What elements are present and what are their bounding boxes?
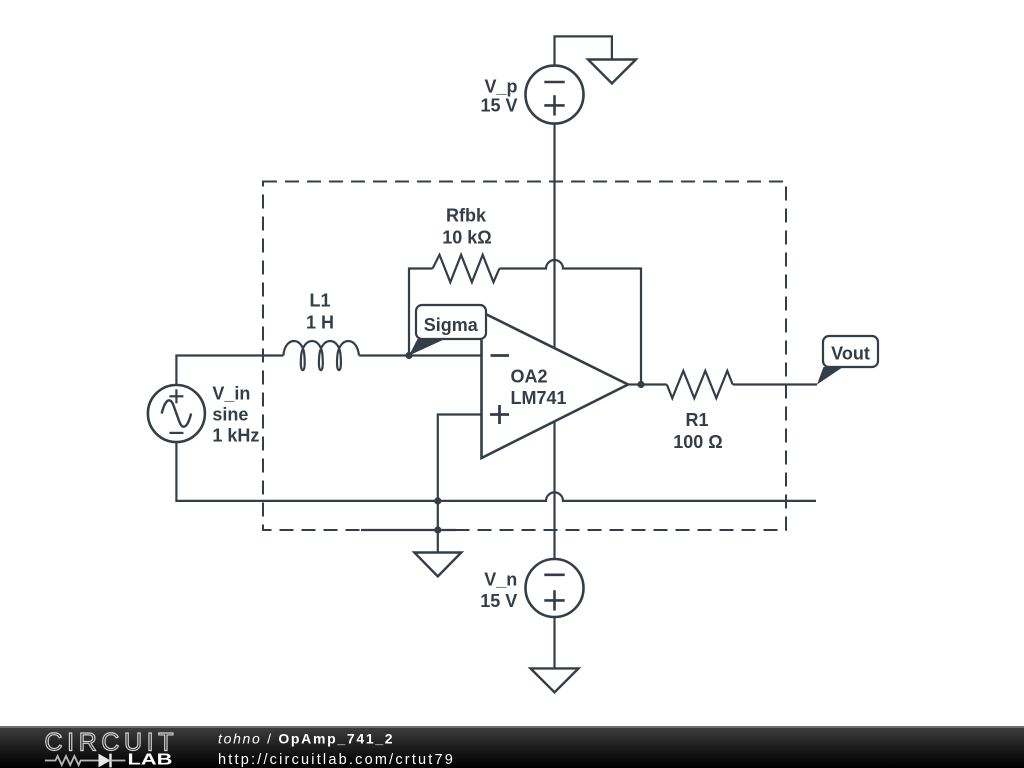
node junction bottom wire xyxy=(434,497,441,504)
wire ground stub xyxy=(361,529,456,531)
svg-text:15 V: 15 V xyxy=(480,591,517,611)
dashed box xyxy=(263,182,786,531)
label R1 100 Ohm xyxy=(673,410,722,452)
wire feedback left xyxy=(409,269,433,356)
svg-text:V_p: V_p xyxy=(484,76,517,96)
op-amp minus input symbol xyxy=(491,354,510,357)
flag Sigma xyxy=(409,305,486,356)
wire V_p top to ground xyxy=(555,36,612,65)
svg-text:1 kHz: 1 kHz xyxy=(212,425,259,445)
svg-text:tohno / OpAmp_741_2: tohno / OpAmp_741_2 xyxy=(218,731,394,747)
label V_n 15 V xyxy=(480,570,517,611)
node output junction xyxy=(637,381,644,388)
svg-text:LM741: LM741 xyxy=(511,388,567,408)
svg-text:V_n: V_n xyxy=(484,570,517,590)
svg-text:http://circuitlab.com/crtut79: http://circuitlab.com/crtut79 xyxy=(218,752,455,768)
wire R1 left lead xyxy=(641,383,667,385)
wire V_in to L1 xyxy=(176,356,283,386)
label V_p 15 V xyxy=(480,76,517,115)
voltage source V_p xyxy=(526,66,584,124)
wire bottom return with hop xyxy=(176,442,816,501)
node Sigma junction xyxy=(405,352,412,359)
logo diode xyxy=(99,754,126,768)
wire feedback right with hop xyxy=(499,260,641,385)
svg-text:OA2: OA2 xyxy=(511,366,548,386)
wire non-inverting input xyxy=(438,415,482,501)
svg-text:10 kΩ: 10 kΩ xyxy=(442,228,491,248)
wire ground drop xyxy=(437,501,439,553)
logo resistor squiggle xyxy=(45,756,99,765)
svg-text:R1: R1 xyxy=(685,410,708,430)
ground GND3 xyxy=(414,553,461,577)
wire V_n to ground xyxy=(553,617,555,668)
voltage source V_n xyxy=(526,559,584,617)
svg-text:100 Ω: 100 Ω xyxy=(673,432,722,452)
label L1 1 H xyxy=(306,291,334,333)
svg-text:Sigma: Sigma xyxy=(424,315,479,335)
inductor L1 xyxy=(283,341,358,370)
svg-text:V_in: V_in xyxy=(212,383,250,403)
ground GND1 xyxy=(588,60,636,84)
flag Vout xyxy=(817,336,878,385)
wire R1 to Vout xyxy=(733,383,817,385)
footer bar xyxy=(0,726,1024,768)
op-amp plus input symbol xyxy=(490,405,509,424)
resistor Rfbk xyxy=(433,255,500,282)
node junction ground stub xyxy=(434,526,441,533)
wire positive rail V_p to op-amp V+ pin xyxy=(553,124,555,349)
svg-text:Rfbk: Rfbk xyxy=(446,205,487,225)
svg-text:LAB: LAB xyxy=(128,752,173,768)
wire negative rail op-amp V- pin to V_n xyxy=(553,422,555,559)
wire op-amp output xyxy=(628,383,641,385)
svg-text:1 H: 1 H xyxy=(306,313,334,333)
resistor R1 xyxy=(667,371,733,398)
svg-text:15 V: 15 V xyxy=(480,95,517,115)
label OA2 LM741 xyxy=(511,366,567,408)
svg-text:sine: sine xyxy=(212,404,248,424)
wire L1 to op-amp inverting input xyxy=(359,354,481,356)
label V_in sine 1 kHz xyxy=(212,383,259,445)
op-amp OA2 triangle xyxy=(482,312,629,458)
label Rfbk 10 kOhm xyxy=(442,205,491,247)
svg-text:L1: L1 xyxy=(309,291,330,311)
svg-text:Vout: Vout xyxy=(831,344,870,364)
voltage source V_in sine xyxy=(148,385,205,442)
ground GND2 xyxy=(531,668,579,692)
